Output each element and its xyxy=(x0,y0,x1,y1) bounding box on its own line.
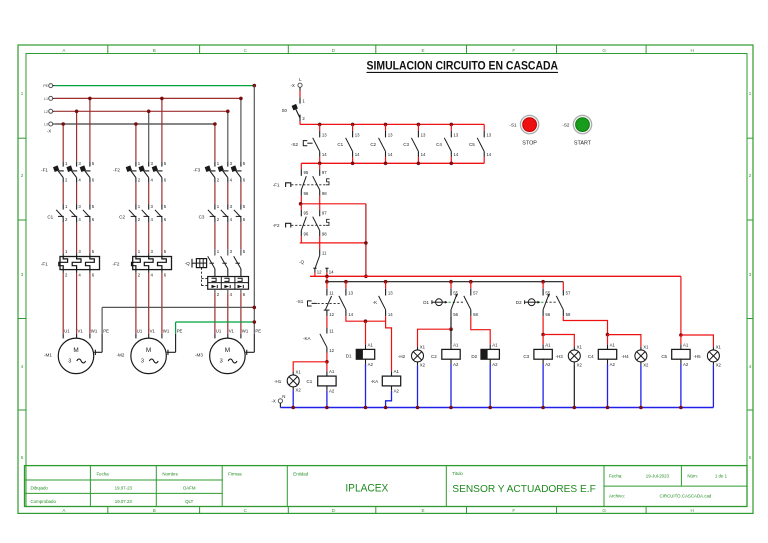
wire rail after -F1 xyxy=(299,202,366,206)
auxiliary contact -KA 11-12 xyxy=(303,328,335,354)
wire C2 to neutral rail xyxy=(450,364,452,408)
svg-text:56: 56 xyxy=(545,312,550,317)
svg-text:A1: A1 xyxy=(368,342,374,347)
svg-text:L2: L2 xyxy=(44,110,48,114)
contact C5 13-14 (parallel seal-in) xyxy=(469,124,492,163)
svg-text:C4: C4 xyxy=(436,142,442,147)
svg-text:IPLACEX: IPLACEX xyxy=(345,483,388,495)
svg-text:Archivo:: Archivo: xyxy=(609,494,625,499)
svg-text:G: G xyxy=(602,48,606,53)
svg-text:A1: A1 xyxy=(329,369,335,374)
svg-text:Entidad: Entidad xyxy=(293,471,308,476)
svg-text:3: 3 xyxy=(68,359,71,365)
svg-text:12: 12 xyxy=(329,348,334,353)
svg-text:2: 2 xyxy=(749,173,752,178)
svg-text:C2: C2 xyxy=(370,142,376,147)
wire C1 to neutral rail xyxy=(326,391,328,408)
contactor coil C5 xyxy=(661,342,690,366)
wire control rail upper xyxy=(300,123,484,125)
motor PE connection hook xyxy=(94,334,102,355)
svg-text:L3: L3 xyxy=(44,123,48,127)
svg-text:W1: W1 xyxy=(163,328,170,333)
svg-text:PE: PE xyxy=(177,328,183,333)
svg-text:A1: A1 xyxy=(394,369,400,374)
svg-text:W1: W1 xyxy=(242,328,249,333)
svg-text:X1: X1 xyxy=(577,344,583,349)
sensor D2 symbol xyxy=(516,299,556,306)
svg-text:U1: U1 xyxy=(137,328,143,333)
wire neutral rail N xyxy=(280,406,713,410)
wire C3 outputs xyxy=(215,222,241,249)
wire L2 bus xyxy=(55,110,228,112)
wire aux contact to node row xyxy=(346,316,386,323)
svg-text:PE: PE xyxy=(255,328,261,333)
wire PE branch M2 (green) xyxy=(176,322,255,334)
wire -Q output rail xyxy=(310,275,681,279)
svg-text:L1: L1 xyxy=(44,97,48,101)
svg-text:A2: A2 xyxy=(453,362,459,367)
motor -M2 xyxy=(116,338,166,374)
sensor D1 symbol xyxy=(423,299,463,306)
svg-text:12: 12 xyxy=(317,269,322,274)
svg-text:14: 14 xyxy=(421,152,426,157)
svg-text:U1: U1 xyxy=(64,328,70,333)
svg-text:14: 14 xyxy=(486,152,491,157)
wire black distribution rail xyxy=(325,280,563,284)
svg-text:E: E xyxy=(422,48,425,53)
svg-text:V1: V1 xyxy=(229,328,235,333)
svg-text:-S2: -S2 xyxy=(291,142,299,147)
svg-text:C1: C1 xyxy=(307,379,313,384)
contact C3 13-14 (parallel seal-in) xyxy=(403,123,426,166)
sensor contact D2 55-56 xyxy=(543,282,551,317)
contactor main contacts C3 xyxy=(199,204,246,222)
wire Q-rail drop to C5 node xyxy=(679,276,683,337)
svg-text:S0: S0 xyxy=(282,108,288,113)
wire L1 bus xyxy=(55,97,241,99)
wire C2 outputs xyxy=(136,222,162,253)
svg-text:A2: A2 xyxy=(610,362,616,367)
svg-text:C4: C4 xyxy=(588,354,594,359)
svg-text:X1: X1 xyxy=(296,369,302,374)
svg-text:58: 58 xyxy=(566,312,571,317)
wire node to coil C4 xyxy=(607,335,609,345)
svg-text:F: F xyxy=(512,508,515,513)
wire node to coil C1 xyxy=(326,362,328,372)
wire node to lamp -H3 xyxy=(543,335,574,347)
svg-text:11: 11 xyxy=(329,328,334,333)
svg-text:V1: V1 xyxy=(78,328,84,333)
motor PE connection hook xyxy=(167,334,176,355)
svg-text:A1: A1 xyxy=(545,342,551,347)
wire bypass vertical (F2 to Q output rail) xyxy=(364,204,368,278)
frame zone numbers xyxy=(21,91,752,460)
wire node to lamp -H1 xyxy=(293,362,327,372)
svg-text:X2: X2 xyxy=(420,362,426,367)
svg-text:Fecha:: Fecha: xyxy=(609,474,622,479)
svg-text:STOP: STOP xyxy=(522,141,537,147)
svg-text:W1: W1 xyxy=(91,328,98,333)
svg-text:D2: D2 xyxy=(516,300,522,305)
wire S0 to rail xyxy=(299,121,301,124)
svg-text:Firmas: Firmas xyxy=(228,471,242,476)
svg-text:C1: C1 xyxy=(47,214,53,219)
svg-text:A1: A1 xyxy=(453,342,459,347)
svg-text:OAFM: OAFM xyxy=(183,486,196,491)
svg-text:98: 98 xyxy=(322,191,327,196)
svg-text:SIMULACION CIRCUITO EN CASCADA: SIMULACION CIRCUITO EN CASCADA xyxy=(367,58,559,72)
svg-text:13: 13 xyxy=(454,132,459,137)
wire -H4 to neutral rail xyxy=(640,365,642,407)
svg-text:U1: U1 xyxy=(216,328,222,333)
wire -S1 to -KA contact xyxy=(326,316,328,328)
wire PE bus xyxy=(55,85,255,87)
contact C4 13-14 (parallel seal-in) xyxy=(436,123,459,166)
svg-text:13: 13 xyxy=(348,290,353,295)
svg-text:G: G xyxy=(602,508,606,513)
svg-text:57: 57 xyxy=(566,291,571,296)
svg-text:5: 5 xyxy=(21,455,24,460)
wire D2 coil to neutral rail xyxy=(489,364,491,408)
svg-text:19.07-23: 19.07-23 xyxy=(115,486,133,491)
svg-text:13: 13 xyxy=(355,132,360,137)
svg-text:A1: A1 xyxy=(492,342,498,347)
svg-text:13: 13 xyxy=(322,132,327,137)
motor terminals U1 V1 W1 PE xyxy=(63,328,109,338)
svg-text:PE: PE xyxy=(43,84,48,88)
terminal -X N (neutral) xyxy=(271,394,285,408)
svg-text:95: 95 xyxy=(304,211,309,216)
svg-text:M: M xyxy=(73,347,78,354)
svg-text:A2: A2 xyxy=(368,362,374,367)
svg-text:-S2: -S2 xyxy=(562,122,570,127)
wire -F1 outputs to motor xyxy=(63,273,90,334)
wire C3 to neutral rail xyxy=(542,364,544,408)
svg-text:13: 13 xyxy=(388,132,393,137)
svg-text:X2: X2 xyxy=(577,362,583,367)
wire -H5 to neutral rail xyxy=(712,365,714,407)
wire from terminal L xyxy=(299,91,301,98)
wire -F2 outputs xyxy=(136,183,162,205)
svg-text:-F3: -F3 xyxy=(193,168,200,173)
contact C1 13-14 (parallel seal-in) xyxy=(337,123,360,166)
svg-text:A2: A2 xyxy=(394,389,400,394)
svg-text:3: 3 xyxy=(749,272,752,277)
fuse-switch breaker -F2 xyxy=(113,161,167,183)
svg-text:H: H xyxy=(691,508,694,513)
svg-text:97: 97 xyxy=(322,170,327,175)
svg-text:-F2: -F2 xyxy=(113,262,120,267)
switch S0 (main control switch) xyxy=(282,97,306,121)
title block right data xyxy=(609,474,728,499)
svg-text:-K: -K xyxy=(373,300,378,305)
wire branch feed drops from buses xyxy=(63,98,241,161)
svg-text:-H3: -H3 xyxy=(556,354,564,359)
svg-text:58: 58 xyxy=(473,312,478,317)
wire node to coil D1 xyxy=(365,321,367,344)
wire -KA coil to neutral rail xyxy=(386,391,392,408)
contactor coil C2 xyxy=(431,342,460,366)
svg-text:57: 57 xyxy=(473,291,478,296)
wire -H1 to neutral rail xyxy=(292,390,294,407)
wire C1 outputs xyxy=(63,222,90,253)
wire node to lamp -H2 xyxy=(418,329,452,347)
svg-text:A2: A2 xyxy=(683,362,689,367)
svg-text:-Q: -Q xyxy=(299,260,304,265)
title block entity IPLACEX xyxy=(293,471,388,494)
svg-text:Dibujado: Dibujado xyxy=(31,486,49,491)
svg-text:Nombre: Nombre xyxy=(162,471,178,476)
svg-text:-X: -X xyxy=(271,399,275,404)
svg-text:56: 56 xyxy=(453,312,458,317)
svg-text:-F2: -F2 xyxy=(273,223,280,228)
svg-text:Comprobado: Comprobado xyxy=(31,499,57,504)
svg-text:C2: C2 xyxy=(431,354,437,359)
wire C5 to neutral rail xyxy=(680,364,682,408)
wire node to coil C5 xyxy=(680,335,682,345)
svg-text:H: H xyxy=(691,48,694,53)
auxiliary contact -Q 11-12/14 (control) xyxy=(299,243,334,276)
relay coil D1 xyxy=(346,342,375,366)
svg-text:-M3: -M3 xyxy=(195,352,203,357)
svg-text:-X: -X xyxy=(290,83,294,88)
wire D2-56 to node xyxy=(541,316,545,336)
wire -F2 outputs to motor xyxy=(136,273,162,334)
svg-text:D1: D1 xyxy=(346,353,352,358)
svg-text:4: 4 xyxy=(21,364,24,369)
svg-text:X2: X2 xyxy=(296,387,302,392)
svg-text:X1: X1 xyxy=(643,344,649,349)
svg-text:-M1: -M1 xyxy=(44,352,52,357)
motor terminals U1 V1 W1 PE xyxy=(136,328,183,338)
svg-text:14: 14 xyxy=(348,312,353,317)
contactor main contacts C1 xyxy=(47,204,94,222)
wire -H3 to neutral rail (black) xyxy=(573,365,575,407)
svg-text:-X: -X xyxy=(47,129,51,134)
svg-text:96: 96 xyxy=(304,231,309,236)
svg-text:C1: C1 xyxy=(337,142,343,147)
wire -KA to node xyxy=(325,353,329,364)
contactor coil C4 xyxy=(588,342,617,366)
motor -M1 xyxy=(44,338,94,374)
svg-text:A2: A2 xyxy=(492,362,498,367)
wire jumper to black distribution rail xyxy=(326,276,328,281)
svg-text:-H5: -H5 xyxy=(693,354,701,359)
title block texts left xyxy=(31,471,243,504)
svg-text:13: 13 xyxy=(388,290,393,295)
svg-text:-KA: -KA xyxy=(371,379,379,384)
svg-text:SENSOR Y ACTUADORES E.F: SENSOR Y ACTUADORES E.F xyxy=(452,484,596,495)
svg-text:11: 11 xyxy=(322,250,327,255)
svg-text:C5: C5 xyxy=(469,142,475,147)
wire control rail lower xyxy=(301,162,484,164)
motor -M3 xyxy=(195,338,245,374)
title block titulo xyxy=(452,471,596,495)
contactor coil C1 xyxy=(307,369,337,393)
svg-text:C5: C5 xyxy=(661,354,667,359)
svg-text:-F1: -F1 xyxy=(41,262,48,267)
fuse-switch breaker -F3 xyxy=(193,161,245,183)
contact -S2 13-14 (parallel seal-in) xyxy=(291,123,327,166)
svg-text:1: 1 xyxy=(21,91,24,96)
thermal overload relay -F2 xyxy=(113,249,172,277)
terminal L2 (supply) xyxy=(44,109,55,114)
wire node to lamp -H4 xyxy=(608,335,641,347)
wire PE vertical drop to M3 xyxy=(253,86,257,334)
contact -K 13-14 xyxy=(373,282,394,317)
svg-text:4: 4 xyxy=(749,364,752,369)
pushbutton indicator -S2 START xyxy=(562,115,591,146)
svg-text:PE: PE xyxy=(103,328,109,333)
svg-text:C3: C3 xyxy=(199,214,205,219)
svg-text:QLT: QLT xyxy=(185,499,194,504)
thermal relay contacts -F2 95-96 / 97-98 xyxy=(273,204,330,243)
svg-text:-S1: -S1 xyxy=(296,299,304,304)
lamp -H5 xyxy=(693,344,721,367)
wire node to coil C3 xyxy=(542,335,544,345)
sensor contact D1 57-58 xyxy=(464,282,479,317)
svg-text:X1: X1 xyxy=(420,344,426,349)
wire D1-58 to coil D2 xyxy=(471,316,490,344)
contact C2 13-14 (parallel seal-in) xyxy=(370,123,393,166)
svg-text:A2: A2 xyxy=(545,362,551,367)
thermal overload relay -F1 xyxy=(41,249,100,277)
svg-text:M: M xyxy=(146,347,151,354)
svg-text:14: 14 xyxy=(355,152,360,157)
svg-text:B: B xyxy=(153,508,156,513)
svg-text:-F2: -F2 xyxy=(113,168,120,173)
svg-text:3: 3 xyxy=(21,272,24,277)
svg-text:-H4: -H4 xyxy=(621,354,629,359)
svg-text:Titulo: Titulo xyxy=(452,471,463,476)
svg-text:X2: X2 xyxy=(643,362,649,367)
svg-text:A1: A1 xyxy=(610,342,616,347)
svg-text:M: M xyxy=(225,347,230,354)
title block table xyxy=(25,466,748,507)
svg-text:3: 3 xyxy=(141,359,144,365)
fuse-switch breaker -F1 xyxy=(41,161,95,183)
svg-text:19-Jul-2023: 19-Jul-2023 xyxy=(646,474,670,479)
pushbutton -S1 NC contact 11-12 xyxy=(296,282,341,317)
junction dots on buses xyxy=(61,84,256,126)
svg-text:-H1: -H1 xyxy=(274,379,282,384)
svg-text:5: 5 xyxy=(749,455,752,460)
svg-text:96: 96 xyxy=(304,191,309,196)
svg-text:C2: C2 xyxy=(119,214,125,219)
svg-text:CIRCUITO.CASCADA.cad: CIRCUITO.CASCADA.cad xyxy=(659,494,711,499)
svg-text:F: F xyxy=(512,48,515,53)
lamp -H4 xyxy=(621,344,649,367)
wire node to coil C2 xyxy=(450,329,452,344)
wire C4 to neutral rail xyxy=(607,364,609,408)
svg-text:-F1: -F1 xyxy=(41,168,48,173)
svg-text:1 de 1: 1 de 1 xyxy=(715,474,728,479)
svg-text:12: 12 xyxy=(329,312,334,317)
svg-text:-KA: -KA xyxy=(303,336,311,341)
motor protection breaker -Q (power) xyxy=(185,249,249,297)
svg-text:Fecha: Fecha xyxy=(97,471,110,476)
lamp -H2 xyxy=(398,344,426,367)
svg-text:D2: D2 xyxy=(471,354,477,359)
title SIMULACION CIRCUITO EN CASCADA xyxy=(367,58,559,72)
wire -F1 outputs xyxy=(63,183,90,205)
svg-text:X1: X1 xyxy=(716,344,722,349)
lamp -H3 xyxy=(556,344,583,367)
svg-text:13: 13 xyxy=(421,132,426,137)
wire D2-58 to node C4 xyxy=(563,316,609,336)
svg-text:97: 97 xyxy=(322,211,327,216)
svg-text:C3: C3 xyxy=(523,354,529,359)
svg-text:14: 14 xyxy=(454,152,459,157)
svg-text:V1: V1 xyxy=(150,328,156,333)
svg-text:19.07.23: 19.07.23 xyxy=(115,499,133,504)
svg-text:Núm:: Núm: xyxy=(687,474,698,479)
wire L3 bus xyxy=(55,123,215,125)
terminal L3 (supply) xyxy=(44,122,55,134)
svg-text:13: 13 xyxy=(486,132,491,137)
wire node to lamp -H5 xyxy=(681,335,714,347)
wire rail after -F2 xyxy=(300,242,366,244)
terminal -X PE (supply) xyxy=(43,84,55,89)
svg-text:A1: A1 xyxy=(683,342,689,347)
svg-text:-Q: -Q xyxy=(185,261,191,266)
frame zone letters xyxy=(62,48,694,513)
svg-text:1: 1 xyxy=(749,91,752,96)
svg-text:-H2: -H2 xyxy=(398,354,406,359)
svg-text:X2: X2 xyxy=(716,362,722,367)
svg-text:E: E xyxy=(422,508,425,513)
svg-text:D1: D1 xyxy=(423,300,429,305)
wire PE branch M1 (gray) xyxy=(102,307,254,333)
sensor contact D1 55-56 xyxy=(451,282,459,317)
wire -K to -KA coil xyxy=(386,316,392,371)
svg-text:-F1: -F1 xyxy=(273,182,280,187)
svg-text:2: 2 xyxy=(21,173,24,178)
svg-text:14: 14 xyxy=(322,152,327,157)
svg-text:C3: C3 xyxy=(403,142,409,147)
svg-text:95: 95 xyxy=(304,170,309,175)
auxiliary contact 13-14 (C1 aux) xyxy=(339,282,354,317)
svg-text:B: B xyxy=(153,48,156,53)
wire D1-56 to node xyxy=(449,316,453,331)
svg-text:START: START xyxy=(574,141,592,147)
wire D1 to neutral rail xyxy=(365,364,367,408)
relay coil D2 xyxy=(471,342,499,366)
svg-text:14: 14 xyxy=(388,152,393,157)
sensor contact D2 57-58 xyxy=(556,282,571,317)
motor PE connection hook xyxy=(246,334,255,355)
motor terminals U1 V1 W1 PE xyxy=(215,328,261,338)
wire -F3 outputs xyxy=(215,183,241,205)
wire -Q outputs to motor M3 xyxy=(215,293,241,334)
terminal -X L (control supply) xyxy=(290,77,302,91)
lamp -H1 xyxy=(274,369,301,392)
terminal L1 (supply) xyxy=(44,96,55,101)
svg-text:11: 11 xyxy=(329,290,334,295)
svg-text:-M2: -M2 xyxy=(116,352,124,357)
svg-text:98: 98 xyxy=(322,231,327,236)
contactor coil C3 xyxy=(523,342,552,366)
svg-text:14: 14 xyxy=(329,269,334,274)
svg-text:3: 3 xyxy=(220,359,223,365)
svg-text:A2: A2 xyxy=(329,389,335,394)
svg-text:14: 14 xyxy=(388,312,393,317)
wire -H2 to neutral rail xyxy=(417,365,419,407)
contactor main contacts C2 xyxy=(119,204,167,222)
pushbutton indicator -S1 STOP xyxy=(509,115,538,146)
svg-text:N: N xyxy=(282,394,285,399)
thermal relay contacts -F1 95-96 / 97-98 xyxy=(273,163,330,204)
